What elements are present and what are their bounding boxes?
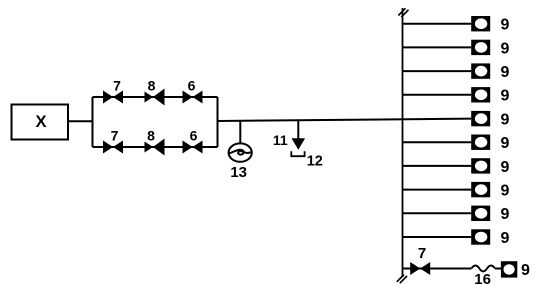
svg-text:9: 9 <box>501 40 510 57</box>
svg-text:12: 12 <box>307 154 323 170</box>
svg-text:16: 16 <box>474 271 491 285</box>
svg-text:6: 6 <box>190 128 198 144</box>
svg-text:11: 11 <box>273 132 288 148</box>
svg-text:7: 7 <box>418 245 426 262</box>
svg-text:7: 7 <box>113 78 121 94</box>
svg-text:9: 9 <box>501 88 510 105</box>
svg-text:X: X <box>35 113 46 131</box>
svg-text:9: 9 <box>501 64 510 81</box>
svg-text:6: 6 <box>188 78 196 94</box>
svg-text:7: 7 <box>111 128 119 144</box>
svg-text:13: 13 <box>230 164 247 181</box>
svg-text:9: 9 <box>501 159 510 176</box>
svg-text:9: 9 <box>501 206 510 223</box>
svg-text:8: 8 <box>148 78 156 94</box>
svg-text:9: 9 <box>501 112 510 129</box>
svg-text:9: 9 <box>501 17 510 34</box>
svg-text:8: 8 <box>147 128 155 144</box>
svg-text:9: 9 <box>501 183 510 200</box>
svg-text:9: 9 <box>501 230 510 247</box>
svg-text:9: 9 <box>501 135 510 152</box>
svg-text:9: 9 <box>521 262 530 279</box>
